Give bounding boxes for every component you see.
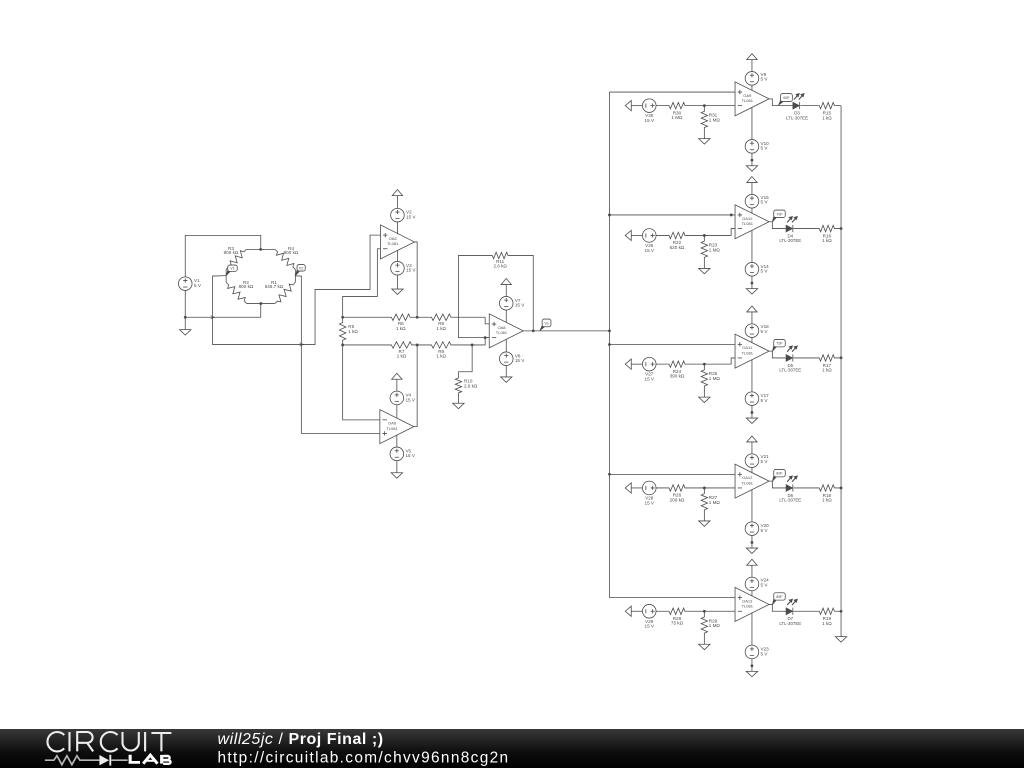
svg-text:V2815 V: V2815 V bbox=[645, 495, 655, 505]
LED D4 label bbox=[779, 233, 801, 243]
resistor R29 bbox=[701, 611, 707, 644]
resistor R23 bbox=[701, 235, 707, 268]
power arrow above V2 bbox=[392, 190, 402, 196]
wire V4 to OA6 V+ bbox=[396, 405, 398, 418]
resistor R11 bbox=[492, 252, 508, 258]
V24 value label bbox=[761, 577, 770, 587]
wire divider to OA12 - input bbox=[704, 487, 735, 489]
svg-text:R61 kΩ: R61 kΩ bbox=[396, 321, 406, 331]
ground below R10 bbox=[453, 403, 464, 408]
svg-text:V205 V: V205 V bbox=[761, 523, 770, 533]
resistor R22 bbox=[656, 232, 704, 238]
R2 value label bbox=[239, 280, 254, 289]
resistor R2 (bridge bottom-left) bbox=[226, 282, 247, 303]
junction bus stage4 bbox=[608, 473, 611, 476]
CircuitLab wordmark LAB bbox=[129, 755, 140, 764]
R1 value label bbox=[265, 280, 284, 289]
svg-text:D6LTL-307EE: D6LTL-307EE bbox=[779, 493, 801, 503]
LED D3 label bbox=[786, 110, 808, 120]
R5 value label bbox=[348, 324, 358, 334]
wire bus to OA10 + input bbox=[609, 214, 735, 216]
wire V7 to OA8 V+ bbox=[505, 310, 507, 322]
junction divider node stage 5 bbox=[703, 610, 706, 613]
junction R5 top bbox=[341, 316, 344, 319]
svg-text:D4LTL-307EE: D4LTL-307EE bbox=[779, 233, 801, 243]
wire OA11 output to LED bbox=[769, 351, 786, 358]
junction OA8 - input node bbox=[484, 336, 487, 339]
wire OA10 output to LED bbox=[769, 222, 786, 229]
svg-text:R22620 kΩ: R22620 kΩ bbox=[670, 240, 685, 250]
wire V1 top to bridge top bbox=[185, 235, 261, 277]
voltage source V29 bbox=[642, 604, 656, 618]
svg-text:V2715 V: V2715 V bbox=[645, 372, 655, 382]
power arrow above V21 bbox=[747, 436, 757, 442]
junction V23 ground stem bbox=[751, 664, 754, 667]
V20 value label bbox=[761, 523, 770, 533]
voltage source V4 bbox=[390, 391, 404, 405]
V17 value label bbox=[761, 393, 770, 403]
wire OA13 output to LED bbox=[769, 604, 786, 611]
voltage source V17 bbox=[745, 392, 759, 406]
svg-text:R1645.7 kΩ: R1645.7 kΩ bbox=[265, 280, 284, 289]
LED D3 bbox=[793, 93, 805, 109]
svg-text:OA9TL081: OA9TL081 bbox=[742, 93, 754, 103]
junction bridge bottom node bbox=[259, 302, 262, 305]
junction divider node stage 2 bbox=[703, 234, 706, 237]
svg-text:R71 kΩ: R71 kΩ bbox=[397, 349, 407, 359]
wire V3 to ground bbox=[396, 275, 398, 289]
wire divider to OA11 - input bbox=[704, 358, 735, 364]
svg-text:R171 kΩ: R171 kΩ bbox=[822, 363, 832, 373]
op-amp OA11 bbox=[735, 334, 769, 368]
wire OA8 output to bus bbox=[523, 330, 609, 332]
ground below R25 bbox=[699, 397, 710, 402]
svg-text:D7LTL-307EE: D7LTL-307EE bbox=[779, 616, 801, 626]
ground below V1 bbox=[180, 330, 191, 335]
resistor R6 bbox=[343, 314, 418, 320]
ground below R29 bbox=[699, 644, 710, 649]
ground below V23 bbox=[746, 671, 757, 676]
R26 value label bbox=[670, 493, 685, 503]
resistor R31 bbox=[701, 106, 707, 139]
node flag 75F bbox=[772, 339, 785, 351]
op-amp OA12 bbox=[735, 464, 769, 498]
V8 value label bbox=[515, 353, 525, 363]
R3 value label bbox=[224, 246, 239, 255]
ground below R27 bbox=[699, 521, 710, 526]
R19 value label bbox=[822, 616, 832, 626]
wire V20 to ground bbox=[751, 536, 753, 549]
wire OA10 V- to V14 bbox=[751, 230, 753, 262]
wire arrow to V7 bbox=[505, 285, 507, 297]
svg-text:V2915 V: V2915 V bbox=[645, 619, 655, 629]
resistor R19 bbox=[794, 608, 842, 614]
wire divider to OA13 - input bbox=[704, 610, 735, 612]
R4 value label bbox=[284, 246, 299, 255]
R9 value label bbox=[436, 349, 446, 359]
svg-text:D5LTL-307EE: D5LTL-307EE bbox=[779, 363, 801, 373]
wire bridge right side bbox=[294, 269, 296, 282]
V4 value label bbox=[405, 392, 415, 402]
wire arrow to V27 bbox=[631, 363, 642, 365]
junction R10 tap bbox=[471, 344, 474, 347]
junction V1-ground rail bbox=[184, 316, 187, 319]
R31 value label bbox=[709, 113, 721, 123]
junction divider node stage 3 bbox=[703, 363, 706, 366]
LED D5 bbox=[786, 345, 798, 361]
svg-text:V715 V: V715 V bbox=[515, 298, 525, 308]
power arrow above V18 bbox=[747, 306, 757, 312]
power arrow above V7 bbox=[501, 279, 511, 285]
voltage source V23 bbox=[745, 645, 759, 659]
LED D6 bbox=[786, 475, 798, 491]
resistor R1 (bridge bottom-right) bbox=[275, 282, 296, 303]
svg-text:R112.6 kΩ: R112.6 kΩ bbox=[493, 259, 507, 269]
R24 value label bbox=[670, 369, 685, 379]
svg-text:V155 V: V155 V bbox=[761, 195, 770, 205]
power arrow left of V27 bbox=[625, 359, 631, 369]
svg-text:OA6TL081: OA6TL081 bbox=[386, 421, 398, 431]
svg-text:OA13TL081: OA13TL081 bbox=[742, 598, 754, 608]
voltage source V14 bbox=[745, 262, 759, 276]
V7 value label bbox=[515, 298, 525, 308]
svg-text:D3LTL-307EE: D3LTL-307EE bbox=[786, 110, 808, 120]
svg-text:OA10TL081: OA10TL081 bbox=[742, 216, 754, 226]
wire V18 to OA11 V+ bbox=[751, 337, 753, 342]
LED D7 label bbox=[779, 616, 801, 626]
wire V5 to ground bbox=[396, 461, 398, 473]
junction return bus stage4 bbox=[840, 487, 843, 490]
wire V10 to ground bbox=[751, 153, 753, 166]
svg-text:R24390 kΩ: R24390 kΩ bbox=[670, 369, 685, 379]
node flag 70F bbox=[772, 210, 785, 222]
junction V14 ground stem bbox=[751, 282, 754, 285]
wire V23 to ground bbox=[751, 659, 753, 672]
resistor R17 bbox=[794, 355, 842, 361]
svg-text:V95 V: V95 V bbox=[761, 72, 769, 82]
wire V15 to OA10 V+ bbox=[751, 208, 753, 213]
ground below V3 bbox=[392, 289, 403, 294]
ground below V5 bbox=[391, 473, 402, 478]
resistor R7 bbox=[343, 342, 418, 348]
R11 value label bbox=[493, 259, 507, 269]
svg-text:85F: 85F bbox=[776, 595, 783, 599]
V18 value label bbox=[761, 324, 770, 334]
junction return bus stage5 bbox=[840, 610, 843, 613]
resistor R28 bbox=[656, 608, 704, 614]
junction OA5 output on rail bbox=[416, 316, 419, 319]
voltage source V30 bbox=[642, 99, 656, 113]
svg-text:R181 kΩ: R181 kΩ bbox=[822, 493, 832, 503]
wire OA6 V- to V5 bbox=[396, 435, 398, 447]
op-amp OA5 label bbox=[387, 236, 399, 246]
resistor R30 bbox=[656, 102, 704, 108]
R6 value label bbox=[396, 321, 406, 331]
V26 value label bbox=[645, 243, 655, 253]
wire OA6 output feedback bbox=[414, 345, 417, 427]
svg-text:OA5TL081: OA5TL081 bbox=[387, 236, 399, 246]
R23 value label bbox=[709, 242, 721, 252]
svg-text:V1: V1 bbox=[230, 267, 235, 271]
junction V20 ground stem bbox=[751, 541, 754, 544]
voltage source V28 bbox=[642, 481, 656, 495]
svg-text:V215 V: V215 V bbox=[406, 210, 416, 220]
svg-text:70F: 70F bbox=[776, 212, 783, 216]
svg-text:OA12TL081: OA12TL081 bbox=[742, 475, 754, 485]
svg-text:R26200 kΩ: R26200 kΩ bbox=[670, 493, 685, 503]
junction divider node stage 1 bbox=[703, 104, 706, 107]
CircuitLab wordmark CIRCUIT bbox=[47, 732, 171, 751]
wire OA5 V- to V3 bbox=[396, 250, 398, 261]
ground below V17 bbox=[746, 418, 757, 423]
wire OA12 V- to V20 bbox=[751, 490, 753, 522]
ground below R31 bbox=[699, 139, 710, 144]
op-amp OA5 bbox=[380, 225, 414, 259]
voltage source V5 bbox=[390, 447, 404, 461]
CircuitLab logo resistor-diode line bbox=[45, 756, 128, 765]
R7 value label bbox=[397, 349, 407, 359]
wire OA8 V- to V8 bbox=[505, 339, 507, 352]
wire bus to OA12 + input bbox=[609, 473, 735, 475]
wire V17 to ground bbox=[751, 406, 753, 419]
power arrow left of V30 bbox=[625, 101, 631, 111]
svg-text:V2615 V: V2615 V bbox=[645, 243, 655, 253]
svg-text:R291 MΩ: R291 MΩ bbox=[709, 618, 721, 628]
wire arrow to V4 bbox=[396, 379, 398, 391]
R29 value label bbox=[709, 618, 721, 628]
R8 value label bbox=[436, 321, 446, 331]
wire node V2 to OA6 + input bbox=[295, 276, 380, 434]
wire node V1 to OA5 + input bbox=[213, 235, 381, 344]
wire arrow to V28 bbox=[631, 487, 642, 489]
V29 value label bbox=[645, 619, 655, 629]
resistor R8 bbox=[417, 314, 485, 320]
V28 value label bbox=[645, 495, 655, 505]
wire V21 to OA12 V+ bbox=[751, 467, 753, 472]
wire arrow to V15 bbox=[751, 183, 753, 195]
svg-text:V415 V: V415 V bbox=[405, 392, 415, 402]
wire arrow to V9 bbox=[751, 60, 753, 72]
ground below V8 bbox=[501, 377, 512, 382]
wire bridge top side bbox=[246, 248, 275, 250]
node flag 80F bbox=[772, 469, 785, 481]
wire arrow to V30 bbox=[631, 105, 642, 107]
svg-text:R231 MΩ: R231 MΩ bbox=[709, 242, 721, 252]
wire divider to OA9 - input bbox=[704, 105, 735, 107]
wire V24 to OA13 V+ bbox=[751, 591, 753, 596]
svg-text:V235 V: V235 V bbox=[761, 646, 770, 656]
wire arrow to V29 bbox=[631, 610, 642, 612]
op-amp OA9 bbox=[735, 82, 769, 116]
svg-text:will25jc / Proj Final ;): will25jc / Proj Final ;) bbox=[218, 731, 384, 748]
svg-text:V515 V: V515 V bbox=[405, 448, 415, 458]
svg-text:V3015 V: V3015 V bbox=[645, 113, 655, 123]
power arrow above V9 bbox=[747, 54, 757, 60]
svg-text:V215 V: V215 V bbox=[761, 454, 770, 464]
op-amp OA10 label bbox=[742, 216, 754, 226]
op-amp OA13 bbox=[735, 587, 769, 621]
op-amp OA8 label bbox=[496, 325, 508, 335]
R30 value label bbox=[671, 110, 683, 120]
svg-text:V245 V: V245 V bbox=[761, 577, 770, 587]
wire ground rail to bridge bottom bbox=[185, 304, 261, 317]
V3 value label bbox=[406, 263, 416, 273]
voltage source V21 bbox=[745, 454, 759, 468]
R25 value label bbox=[709, 371, 721, 381]
svg-text:R191 kΩ: R191 kΩ bbox=[822, 616, 832, 626]
voltage source V1 bbox=[178, 277, 192, 291]
LED D7 bbox=[786, 599, 798, 615]
voltage source V2 bbox=[391, 208, 405, 222]
power arrow left of V29 bbox=[625, 606, 631, 616]
svg-text:R102.6 kΩ: R102.6 kΩ bbox=[464, 378, 478, 388]
node flag V2 bbox=[295, 265, 305, 276]
LED D6 label bbox=[779, 493, 801, 503]
wire bus to OA11 + input bbox=[609, 343, 735, 345]
svg-text:V15 V: V15 V bbox=[194, 278, 202, 288]
svg-text:65F: 65F bbox=[783, 96, 790, 100]
voltage source V7 bbox=[499, 296, 513, 310]
svg-text:80F: 80F bbox=[776, 472, 783, 476]
junction bus stage3 bbox=[608, 343, 611, 346]
svg-text:V175 V: V175 V bbox=[761, 393, 770, 403]
svg-text:R271 MΩ: R271 MΩ bbox=[709, 495, 721, 505]
wire bus to OA13 + input bbox=[609, 597, 735, 599]
junction OA6 output on rail bbox=[416, 344, 419, 347]
resistor R24 bbox=[656, 361, 704, 367]
svg-text:R151 kΩ: R151 kΩ bbox=[822, 110, 832, 120]
voltage source V26 bbox=[642, 229, 656, 243]
R17 value label bbox=[822, 363, 832, 373]
V27 value label bbox=[645, 372, 655, 382]
wire rail1 to OA8 + input bbox=[485, 317, 489, 324]
V5 value label bbox=[405, 448, 415, 458]
svg-text:V315 V: V315 V bbox=[406, 263, 416, 273]
resistor R26 bbox=[656, 485, 704, 491]
resistor R5 bbox=[339, 317, 345, 345]
wire LED return bus bbox=[840, 106, 842, 637]
V23 value label bbox=[761, 646, 770, 656]
V30 value label bbox=[645, 113, 655, 123]
svg-text:V105 V: V105 V bbox=[761, 141, 770, 151]
R28 value label bbox=[671, 616, 684, 626]
op-amp OA9 label bbox=[742, 93, 754, 103]
power arrow above V4 bbox=[392, 373, 402, 379]
svg-text:R251 MΩ: R251 MΩ bbox=[709, 371, 721, 381]
op-amp OA12 label bbox=[742, 475, 754, 485]
LED D5 label bbox=[779, 363, 801, 373]
wire OA6 - input bbox=[343, 345, 380, 420]
resistor R16 bbox=[794, 225, 842, 231]
wire R11 left leg bbox=[458, 255, 492, 337]
ground below R23 bbox=[699, 268, 710, 273]
junction bus OA8 output bbox=[608, 329, 611, 332]
power arrow left of V26 bbox=[625, 230, 631, 240]
ground below V10 bbox=[746, 166, 757, 171]
svg-text:R311 MΩ: R311 MΩ bbox=[709, 113, 721, 123]
crossing V1-wire over ground rail bbox=[211, 316, 215, 319]
ground LED return bus bbox=[835, 637, 846, 642]
node flag Vo bbox=[540, 319, 551, 330]
resistor R18 bbox=[794, 485, 842, 491]
wire OA5 output feedback bbox=[414, 242, 417, 317]
resistor R27 bbox=[701, 488, 707, 521]
node flag 85F bbox=[772, 593, 785, 605]
V14 value label bbox=[761, 264, 770, 274]
wire OA9 V- to V10 bbox=[751, 107, 753, 139]
resistor R15 bbox=[800, 102, 841, 108]
wire OA11 V- to V17 bbox=[751, 360, 753, 392]
resistor R4 (bridge top-right) bbox=[275, 249, 295, 269]
junction bus stage2 bbox=[608, 214, 611, 217]
wire OA9 output to LED bbox=[769, 99, 793, 106]
svg-text:R161 kΩ: R161 kΩ bbox=[822, 233, 832, 243]
power arrow left of V28 bbox=[625, 483, 631, 493]
LED D4 bbox=[786, 216, 798, 232]
voltage source V18 bbox=[745, 324, 759, 338]
op-amp OA6 label bbox=[386, 421, 398, 431]
wire V14 to ground bbox=[751, 276, 753, 289]
svg-text:R91 kΩ: R91 kΩ bbox=[436, 349, 446, 359]
wire divider to OA10 - input bbox=[704, 229, 735, 236]
wire V8 to ground bbox=[505, 366, 507, 377]
svg-text:75F: 75F bbox=[776, 342, 783, 346]
svg-text:V2: V2 bbox=[299, 266, 304, 270]
wire comparator + bus bbox=[608, 92, 610, 598]
wire R11 right leg bbox=[508, 255, 533, 330]
svg-text:V815 V: V815 V bbox=[515, 353, 525, 363]
wire OA5 - input bbox=[343, 249, 381, 318]
R27 value label bbox=[709, 495, 721, 505]
power arrow above V24 bbox=[747, 559, 757, 565]
crossing V1-wire over V2-wire bbox=[300, 343, 304, 346]
op-amp OA6 bbox=[380, 410, 414, 444]
wire R9 to OA8 - riser bbox=[472, 338, 489, 345]
wire arrow to V21 bbox=[751, 442, 753, 454]
voltage source V15 bbox=[745, 194, 759, 208]
svg-text:Vo: Vo bbox=[544, 321, 548, 325]
R22 value label bbox=[670, 240, 685, 250]
junction OA10 + pin bbox=[730, 214, 733, 217]
resistor R3 (bridge top-left) bbox=[226, 249, 246, 269]
op-amp OA8 bbox=[489, 314, 523, 348]
V1 value label bbox=[194, 278, 202, 288]
voltage source V8 bbox=[499, 352, 513, 366]
svg-text:R2875 kΩ: R2875 kΩ bbox=[671, 616, 684, 626]
V15 value label bbox=[761, 195, 770, 205]
wire bridge bottom side bbox=[247, 303, 275, 305]
node flag V1 bbox=[226, 265, 237, 276]
V21 value label bbox=[761, 454, 770, 464]
junction R11 to output bbox=[532, 329, 535, 332]
op-amp OA10 bbox=[735, 205, 769, 239]
wire OA12 output to LED bbox=[769, 481, 786, 488]
junction bridge top node bbox=[259, 248, 262, 251]
R16 value label bbox=[822, 233, 832, 243]
op-amp OA11 label bbox=[742, 345, 754, 355]
wire arrow to V26 bbox=[631, 234, 642, 236]
node flag 65F bbox=[778, 94, 792, 106]
svg-text:OA11TL081: OA11TL081 bbox=[742, 345, 754, 355]
svg-text:R301 MΩ: R301 MΩ bbox=[671, 110, 683, 120]
R18 value label bbox=[822, 493, 832, 503]
ground below V14 bbox=[746, 289, 757, 294]
junction divider node stage 4 bbox=[703, 487, 706, 490]
R10 value label bbox=[464, 378, 478, 388]
op-amp OA13 label bbox=[742, 598, 754, 608]
svg-text:R3800 kΩ: R3800 kΩ bbox=[224, 246, 239, 255]
resistor R25 bbox=[701, 364, 707, 397]
